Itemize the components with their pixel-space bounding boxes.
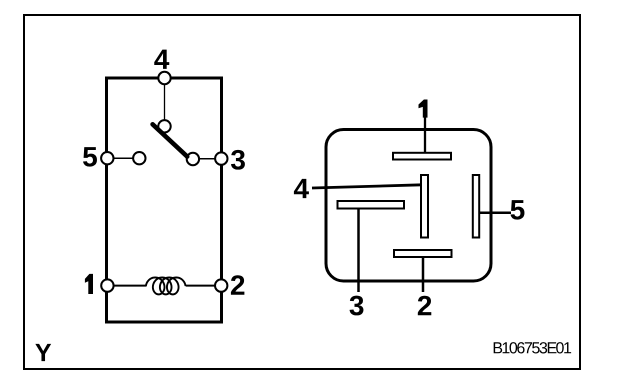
drawing number B106753E01 [494, 342, 571, 353]
pin 4 leader line [312, 185, 422, 188]
pin 1 label [85, 274, 93, 294]
pin 2 label (connector) [418, 296, 431, 316]
pin 3 slot [338, 201, 405, 209]
switch pivot contact [158, 120, 170, 132]
relay connector body outline [326, 130, 491, 282]
wire contact to pin 3 [199, 158, 221, 160]
pin 2 terminal [215, 279, 227, 291]
coil winding [146, 277, 186, 294]
contact (pin 5 side) [133, 152, 145, 164]
pin 4 slot [421, 175, 428, 238]
pin 5 leader line [479, 211, 511, 214]
pin 1 label (connector) [419, 100, 428, 118]
pin 2 leader line [422, 257, 425, 292]
pin 2 slot [394, 250, 452, 257]
pin 2 label [231, 275, 244, 295]
pin 3 leader line [357, 209, 360, 293]
figure label Y [35, 344, 51, 361]
contact (pin 3 side) [187, 153, 199, 165]
pin 3 terminal [215, 152, 227, 164]
pin 4 label [154, 50, 169, 69]
pin 1 terminal [101, 279, 113, 291]
wire coil to pin 2 [186, 285, 222, 287]
switch arm [153, 124, 188, 156]
pin 3 label [231, 150, 245, 170]
pin 5 slot [473, 175, 479, 238]
wire pin 5 to contact [107, 157, 139, 159]
wire pin 4 to switch pivot [164, 78, 166, 126]
pin 1 leader line [424, 118, 426, 155]
pin 3 label (connector) [350, 296, 364, 316]
pin 5 label (connector) [511, 200, 525, 220]
pin 5 terminal [101, 152, 113, 164]
pin 4 terminal [158, 72, 170, 84]
pin 1 slot [393, 153, 451, 160]
pin 5 label [83, 147, 97, 167]
pin 4 label (connector) [294, 179, 309, 198]
wire pin 1 to coil [107, 285, 146, 287]
relay body outline (schematic) [107, 78, 222, 322]
